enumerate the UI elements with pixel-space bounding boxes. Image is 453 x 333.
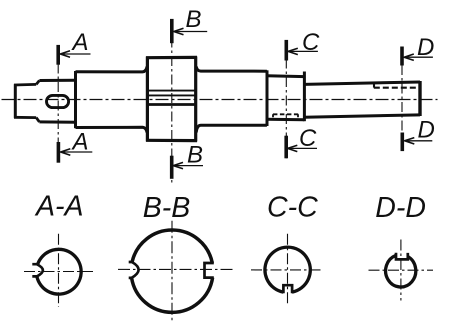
section line A-A thin — [57, 45, 59, 163]
section D-D circle with top keyseat — [386, 255, 416, 287]
step face C to D — [303, 72, 306, 122]
arrow A bottom — [62, 151, 92, 153]
shaft stub section top edge — [14, 83, 36, 86]
hidden keyway line on section D top — [374, 87, 420, 89]
svg-text:A-A: A-A — [34, 191, 84, 223]
svg-text:C-C: C-C — [267, 192, 318, 224]
section D-D crosshair vertical — [400, 240, 402, 301]
section D-D keyseat notch — [396, 253, 408, 260]
flange B bottom edge — [146, 139, 197, 143]
arrow D top — [406, 56, 433, 58]
svg-text:D: D — [417, 34, 434, 61]
section B-B circle top arc — [132, 230, 212, 263]
section5 top edge with fillet from flange — [196, 67, 267, 72]
section line B-B thin — [171, 19, 173, 183]
chamfer bottom stub to section2 — [36, 118, 39, 122]
section line B-B thick top stroke — [170, 19, 174, 43]
section B-B right keyseat notch — [205, 263, 214, 278]
section3 bottom edge with fillet into flange — [76, 127, 148, 132]
svg-text:B-B: B-B — [143, 192, 191, 224]
section B-B crosshair vertical — [171, 221, 173, 322]
section B-B circle bottom arc — [132, 278, 213, 313]
section C-C keyseat notch — [283, 285, 292, 293]
section D top edge — [304, 82, 420, 84]
section line D-D thick bottom stroke — [400, 133, 404, 152]
step face section2 to section3 — [74, 71, 77, 128]
svg-text:C: C — [299, 125, 317, 152]
svg-text:C: C — [302, 29, 320, 56]
section5 bottom edge with fillet from flange — [196, 125, 267, 132]
section D-D crosshair horizontal — [369, 269, 434, 271]
step face section5 to C — [266, 70, 269, 126]
keyway line middle in flange — [148, 94, 195, 96]
section line C-C thick top stroke — [284, 40, 288, 61]
section3 top edge with fillet into flange — [76, 67, 148, 72]
section line D-D thick top stroke — [400, 47, 404, 66]
chamfer top stub to section2 — [36, 81, 39, 85]
section line A-A thick top stroke — [56, 45, 60, 65]
arrow D bottom — [406, 140, 432, 142]
section C top edge — [267, 74, 304, 78]
shaft right end face — [418, 81, 421, 116]
section line D-D thin — [401, 47, 403, 152]
section A-A crosshair vertical — [58, 234, 60, 307]
section A-A crosshair horizontal — [24, 271, 93, 273]
section line C-C thick bottom stroke — [284, 136, 288, 159]
section B-B crosshair horizontal — [118, 268, 234, 270]
section2 bottom edge — [39, 120, 75, 123]
arrow C top — [290, 50, 318, 52]
flange B top edge — [146, 56, 197, 59]
section B-B left keyseat notch (half-round) — [129, 262, 139, 278]
svg-text:D: D — [418, 117, 435, 144]
section C-C circle with bottom keyseat — [265, 247, 310, 292]
arrow A top — [62, 53, 91, 55]
section A-A circle with left keyseat — [37, 249, 81, 294]
arrow C bottom — [289, 147, 317, 149]
keyway line lower in flange — [148, 103, 195, 106]
section line C-C thin — [285, 40, 287, 158]
shaft left end face — [14, 84, 17, 118]
section2 top edge — [39, 79, 75, 82]
hidden keyway lines on section C bottom — [273, 113, 298, 115]
shaft stub section bottom edge — [14, 116, 36, 119]
arrow B bottom — [175, 165, 203, 167]
arrow B top — [176, 31, 208, 33]
section D bottom edge — [304, 115, 420, 117]
svg-text:A: A — [71, 29, 89, 56]
section C-C crosshair vertical — [287, 234, 289, 305]
section C-C crosshair horizontal — [251, 269, 323, 271]
svg-text:B: B — [187, 141, 203, 168]
section A-A keyseat notch — [32, 264, 43, 276]
keyway line upper in flange — [148, 90, 195, 92]
flange B left face — [146, 57, 149, 142]
section C bottom edge — [267, 118, 304, 122]
svg-text:B: B — [186, 6, 202, 33]
shaft horizontal centerline — [2, 99, 438, 101]
section line B-B thick bottom stroke — [170, 156, 174, 179]
keyway slot (oblong) on section2 — [47, 95, 69, 107]
flange B right face — [194, 57, 197, 142]
section line A-A thick bottom stroke — [57, 142, 61, 163]
svg-text:D-D: D-D — [375, 192, 426, 224]
svg-text:A: A — [71, 129, 89, 156]
